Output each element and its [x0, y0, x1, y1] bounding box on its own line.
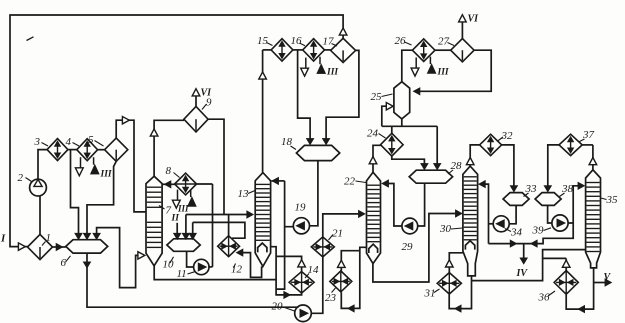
cooler 32: [480, 134, 502, 155]
column 7: [146, 176, 162, 266]
water symbols of cooler 4: [80, 157, 82, 168]
svg-text:1: 1: [46, 232, 52, 244]
mixer 28: [409, 170, 452, 183]
wire 26-27 connector: [435, 49, 451, 51]
wire junction to mixer 6 feed a: [71, 150, 79, 236]
mixer 6: [66, 240, 108, 253]
wire reboiler 36 return to column 35: [543, 258, 567, 270]
separator 27: [451, 39, 474, 62]
cooler 15: [271, 39, 293, 61]
wire mixer 6 to pump 20: [87, 253, 299, 307]
svg-text:23: 23: [325, 292, 337, 304]
wire column 30 overhead to cooler 32: [470, 145, 479, 166]
column 30: [463, 166, 478, 276]
column 13: [255, 173, 270, 267]
svg-text:III: III: [100, 170, 112, 180]
svg-text:35: 35: [606, 194, 619, 206]
wire mixer 28 to pump 29: [418, 183, 425, 226]
pump 39: [552, 215, 568, 231]
svg-text:10: 10: [163, 259, 175, 271]
wire flash 25 top to cooler 26: [402, 50, 413, 81]
svg-text:II: II: [171, 214, 180, 224]
wire mixer 18 to pump 19: [310, 161, 318, 226]
svg-text:8: 8: [166, 165, 172, 177]
wire column 13 side draw to exchanger 14 loop: [271, 247, 302, 295]
wire separator 5 liquid to mixer 6 feed b: [87, 161, 116, 235]
svg-text:I: I: [0, 233, 6, 245]
water symbols of cooler 26: [415, 58, 417, 69]
cooler 3: [47, 139, 68, 161]
svg-text:25: 25: [371, 91, 383, 103]
wire column 22 bottoms to column 30 feed: [373, 214, 459, 283]
node V outlet: [594, 282, 606, 284]
pump 29: [402, 218, 418, 234]
wire column 7 overhead to separator 9: [154, 120, 184, 176]
separator 1: [28, 234, 53, 259]
node VI vent at separator 9: [195, 96, 197, 106]
pump 20: [295, 305, 312, 322]
svg-text:III: III: [326, 68, 338, 78]
svg-text:6: 6: [61, 257, 67, 269]
svg-text:16: 16: [291, 35, 303, 47]
svg-text:22: 22: [344, 176, 356, 188]
separator 17: [331, 38, 356, 62]
wire 16-17 connector: [325, 49, 331, 51]
heater 21: [311, 237, 334, 257]
svg-text:32: 32: [501, 130, 514, 142]
svg-text:III: III: [177, 204, 189, 214]
wire 3-4 connector: [68, 149, 77, 151]
wire exchanger 12 return to mixer 10: [193, 222, 245, 238]
wire 4-5 connector: [98, 149, 105, 151]
wire column 22 overhead to cooler 24: [373, 145, 381, 172]
wire column 35 bottoms to reboiler 36: [566, 268, 593, 309]
svg-text:19: 19: [295, 202, 307, 214]
cooler 16: [303, 39, 325, 61]
svg-text:34: 34: [510, 227, 523, 239]
svg-text:3: 3: [34, 136, 41, 148]
cooler 26: [412, 39, 435, 62]
wire recycle to mixer 6 feed c and column 7 bottom-left: [97, 228, 138, 288]
svg-text:4: 4: [66, 136, 72, 148]
svg-text:30: 30: [439, 223, 452, 235]
wire column 30 bottoms to column 35 feed: [472, 250, 586, 281]
wire mixer 10 to pump 11: [187, 251, 194, 267]
wire mixer 33 to pump 34: [509, 205, 516, 223]
separator 5: [105, 138, 128, 161]
wire reboiler 31 return to column 30: [449, 253, 463, 273]
wire flash 25 bottom header to mixer 28: [382, 119, 437, 165]
svg-text:VI: VI: [201, 88, 213, 99]
svg-text:III: III: [437, 68, 449, 78]
exchanger 14: [289, 272, 314, 294]
pump 11: [194, 259, 209, 274]
pump 34: [493, 216, 509, 232]
wire feed line into column 13: [186, 214, 250, 216]
pump 2: [30, 179, 47, 196]
svg-text:11: 11: [177, 268, 187, 280]
mixer 18: [296, 145, 339, 160]
wire pump 19 discharge split: [276, 181, 293, 289]
wire pump 2 to cooler 3: [38, 150, 47, 180]
svg-text:15: 15: [257, 35, 269, 47]
wire separator 17 liquid to mixer 18: [326, 50, 359, 140]
column 35: [586, 170, 601, 268]
wire 1 to mixer 6: [53, 246, 66, 248]
wire heater 21 to column 22 feed: [323, 214, 362, 237]
wire cooler 37 to column 35 riser: [582, 144, 593, 146]
wire separator 5 vapour to column 7 side: [116, 120, 146, 212]
svg-text:31: 31: [424, 288, 436, 300]
wire column 35 overhead riser: [592, 145, 594, 170]
svg-text:IV: IV: [516, 268, 529, 279]
flash drum 25: [394, 82, 410, 119]
wire pump 11 right connector: [209, 266, 213, 268]
node VI vent at separator 27: [461, 22, 463, 38]
wire pump 29 reflux into column 22: [384, 184, 402, 227]
wire reflux into column 13 top: [272, 180, 285, 182]
svg-text:36: 36: [538, 292, 551, 304]
wire exchanger 12 to feed line: [228, 215, 230, 236]
reboiler 31: [437, 273, 461, 294]
svg-text:26: 26: [395, 35, 407, 47]
svg-text:17: 17: [323, 36, 335, 48]
wire mixer 38 to pump 39: [548, 205, 552, 223]
svg-text:12: 12: [231, 263, 243, 275]
wire pump 39 reflux into column 35: [568, 186, 581, 223]
cooler 24: [381, 133, 404, 156]
mixer 10: [167, 239, 200, 252]
mixer 33: [503, 193, 529, 206]
wire cooler 32 to mixer 33: [502, 145, 514, 186]
svg-text:29: 29: [402, 241, 414, 253]
wire column 13 overhead riser to cooler 15: [262, 50, 264, 173]
wire exchanger 14 top return to column 13: [276, 256, 302, 271]
stray mark: [27, 37, 34, 41]
cooler 4: [77, 139, 98, 161]
node I inlet arrow: [18, 243, 25, 250]
mixer 38: [535, 193, 561, 206]
wire riser pump 11 to cooler 8: [197, 184, 213, 267]
cooler 37: [559, 134, 582, 155]
wire 15 left elbow: [263, 49, 272, 51]
svg-text:21: 21: [332, 228, 343, 240]
svg-text:27: 27: [438, 36, 450, 48]
wire column 22 draw to heater 23 loop: [341, 247, 366, 308]
pump 19: [293, 218, 309, 234]
svg-text:2: 2: [18, 172, 24, 184]
svg-text:20: 20: [272, 301, 284, 313]
exchanger 12: [218, 236, 240, 257]
wire 15-16 connector: [293, 49, 303, 51]
wire pump 34 reflux into column 30: [480, 184, 488, 244]
svg-text:39: 39: [532, 225, 545, 237]
svg-text:38: 38: [561, 183, 574, 195]
svg-text:VI: VI: [468, 14, 480, 25]
svg-text:24: 24: [367, 128, 379, 140]
reboiler 36: [554, 271, 578, 295]
wire cooler 24 top to flash 25 line: [391, 126, 393, 133]
wire separator 9 liquid downcomer: [208, 119, 224, 214]
wire separator 27 to flash 25 side: [416, 50, 491, 91]
wire cooler 24 bottom to mixer 28: [392, 156, 425, 165]
wire product IV header: [489, 223, 574, 259]
wire 1 to pump 2: [39, 196, 41, 234]
wire cooler 37 to mixer 38: [548, 145, 559, 186]
svg-text:5: 5: [88, 134, 94, 146]
wire pump 34 discharge: [489, 223, 494, 225]
wire flash 25 recirculation: [382, 106, 387, 126]
wire top recycle line from separator 17 to valve 1: [10, 15, 343, 247]
water symbols of cooler 16: [305, 58, 307, 69]
wire column 13 bottoms to exchanger 12: [242, 253, 261, 278]
heater 23: [330, 271, 352, 292]
separator 9: [184, 106, 208, 132]
svg-text:33: 33: [525, 183, 538, 195]
wire cooler 8 to column 7 top: [162, 183, 174, 185]
wire heater 23 to column 22 return: [341, 251, 360, 272]
column 22: [367, 172, 381, 263]
cooler 8: [175, 173, 197, 195]
wire 15-16 junction down to mixer 18: [298, 50, 311, 140]
wire column 30 bottoms to reboiler 31: [449, 276, 471, 309]
wire pump 20 to heater 21: [311, 257, 323, 314]
svg-text:13: 13: [238, 188, 250, 200]
wire column 7 bottoms line: [154, 266, 276, 280]
water symbols of cooler 8: [177, 190, 179, 201]
